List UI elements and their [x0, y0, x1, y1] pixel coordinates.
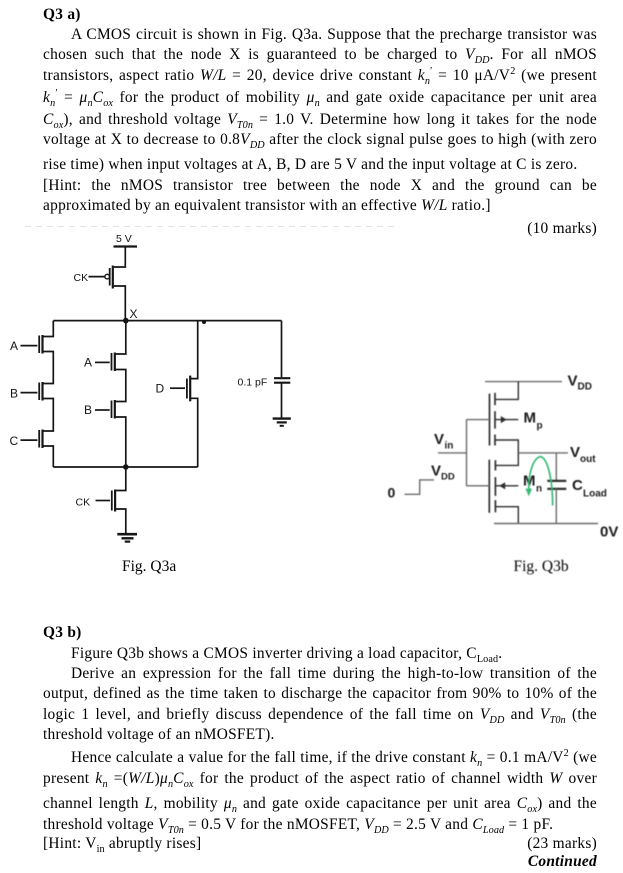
CK label (bottom): [76, 497, 91, 509]
svg-text:B: B: [10, 387, 18, 401]
wire C gate (left): [21, 439, 38, 441]
node X rail: [53, 320, 281, 322]
wire CK gate (bottom): [96, 500, 111, 502]
node X junction dot: [123, 318, 129, 324]
wire CK gate (top): [89, 276, 105, 278]
caption Fig. Q3a: [122, 558, 176, 575]
label A (middle): [84, 356, 92, 370]
svg-text:M: M: [524, 410, 537, 427]
nmos transistor Mn: [489, 460, 518, 513]
svg-text:A: A: [10, 339, 18, 353]
bottom rail junction dot: [123, 464, 129, 470]
wire rail to capacitor: [281, 321, 283, 377]
ground (main): [117, 534, 137, 541]
label B (left): [10, 387, 18, 401]
discharge current arrow (green): [526, 457, 553, 506]
wire A source to B drain (left): [43, 352, 53, 384]
transistor A (middle): [112, 353, 115, 372]
wire Vout to CLoad: [555, 453, 557, 480]
svg-text:p: p: [537, 421, 543, 432]
svg-text:out: out: [580, 454, 596, 465]
wire CLoad to 0V: [555, 489, 557, 524]
svg-text:D: D: [156, 382, 165, 396]
label A (left): [10, 339, 18, 353]
wire middle branch from node X: [115, 321, 126, 354]
svg-text:Fig. Q3b: Fig. Q3b: [514, 558, 569, 575]
wire D branch from rail: [191, 321, 198, 379]
wire capacitor to ground: [281, 383, 283, 418]
wire bus to Mn gate: [467, 485, 490, 487]
CK label (top): [74, 272, 89, 284]
svg-text:n: n: [536, 484, 542, 495]
label 0.1 pF: [238, 377, 268, 389]
transistor D: [187, 376, 190, 402]
wire Mp drain to Vout: [495, 440, 518, 453]
label VDD (step): [431, 463, 455, 483]
svg-text:V: V: [568, 373, 578, 390]
label Vout: [570, 444, 596, 465]
step waveform: [405, 480, 435, 494]
wire C source to bottom rail: [43, 446, 53, 467]
wire A gate (middle): [95, 361, 110, 363]
svg-text:DD: DD: [578, 382, 592, 393]
wire B source to bottom rail (middle): [115, 417, 126, 467]
junction dot D-branch on rail: [202, 320, 206, 324]
caption Fig. Q3b: [514, 558, 569, 575]
wire A source to B drain (middle): [115, 370, 126, 402]
label B (middle): [84, 403, 92, 417]
transistor B (left): [39, 382, 42, 401]
svg-text:Fig. Q3a: Fig. Q3a: [122, 558, 176, 575]
svg-text:0.1 pF: 0.1 pF: [238, 377, 268, 389]
input bus vertical: [466, 420, 468, 486]
0V rail: [494, 523, 598, 525]
label Vin: [434, 431, 453, 452]
wire D gate: [170, 387, 185, 389]
svg-text:A: A: [84, 356, 92, 370]
bottom rail: [53, 466, 197, 468]
nmos discharge transistor (CK): [112, 490, 115, 512]
label CLoad: [572, 477, 607, 500]
svg-text:CK: CK: [76, 497, 91, 509]
wire B source to C drain (left): [43, 399, 53, 432]
label VDD (rail): [568, 373, 592, 393]
svg-text:C: C: [10, 434, 19, 448]
svg-text:0: 0: [388, 485, 396, 501]
wire A gate (left): [21, 345, 38, 347]
svg-text:Load: Load: [583, 489, 607, 500]
wire Vout to Mn drain: [495, 453, 518, 466]
svg-text:CK: CK: [74, 272, 89, 284]
label Mp: [524, 410, 543, 432]
supply 5V label: [116, 233, 132, 245]
label D: [156, 382, 165, 396]
transistor B (middle): [112, 400, 115, 419]
label 0V: [600, 524, 618, 541]
wire bus to Mp gate: [467, 419, 490, 421]
node X label: [130, 307, 138, 321]
ground (capacitor): [273, 419, 291, 426]
svg-text:5 V: 5 V: [116, 233, 132, 245]
svg-text:0V: 0V: [600, 524, 618, 541]
VDD rail: [485, 381, 562, 383]
wire left branch from rail: [43, 321, 53, 337]
wire VDD to Mp source: [495, 382, 518, 400]
transistor A (left): [39, 335, 42, 354]
pmos precharge transistor (CK): [105, 266, 113, 289]
svg-text:V: V: [434, 431, 444, 448]
label Mn: [523, 473, 542, 495]
wire bottom rail to CK nmos drain: [116, 467, 126, 491]
wire B gate (middle): [95, 409, 110, 411]
transistor C (left): [39, 430, 42, 449]
svg-text:X: X: [130, 307, 138, 321]
Vout wire: [518, 452, 568, 454]
supply bar: [114, 245, 138, 247]
capacitor CLoad: [547, 481, 566, 489]
svg-text:C: C: [572, 477, 583, 494]
label 0 (step): [388, 485, 396, 501]
wire supply to precharge drain: [114, 247, 126, 268]
svg-text:V: V: [570, 444, 580, 461]
svg-text:V: V: [431, 463, 441, 480]
pmos transistor Mp: [490, 393, 519, 446]
svg-text:DD: DD: [441, 472, 455, 483]
label C (left): [10, 434, 19, 448]
svg-text:in: in: [445, 441, 454, 452]
wire B gate (left): [21, 392, 38, 394]
wire precharge source to node X: [114, 286, 126, 321]
capacitor 0.1 pF: [274, 378, 290, 383]
wire CK source to ground: [116, 509, 126, 534]
Vin wire: [438, 452, 467, 454]
wire Mn source to 0V rail: [495, 507, 518, 524]
faint scan artifact line: [25, 226, 398, 228]
wire D source to bottom rail: [191, 398, 198, 467]
svg-text:B: B: [84, 403, 92, 417]
